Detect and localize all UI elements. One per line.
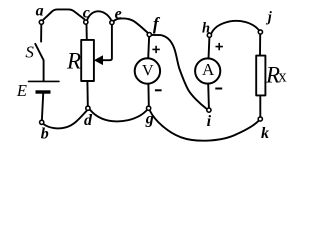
svg-text:i: i [207, 113, 212, 130]
svg-text:c: c [83, 5, 90, 22]
svg-text:j: j [266, 10, 273, 26]
svg-text:h: h [202, 20, 210, 36]
svg-text:R: R [66, 48, 81, 73]
svg-text:e: e [115, 5, 122, 22]
svg-text:x: x [278, 67, 287, 86]
svg-text:k: k [261, 125, 269, 142]
svg-text:f: f [153, 13, 161, 33]
svg-text:V: V [142, 63, 154, 80]
svg-text:d: d [84, 112, 93, 129]
svg-text:a: a [36, 3, 44, 20]
svg-text:E: E [16, 81, 27, 100]
svg-text:g: g [145, 111, 154, 128]
svg-text:b: b [41, 125, 49, 142]
svg-text:A: A [202, 60, 215, 79]
svg-text:S: S [25, 43, 34, 62]
